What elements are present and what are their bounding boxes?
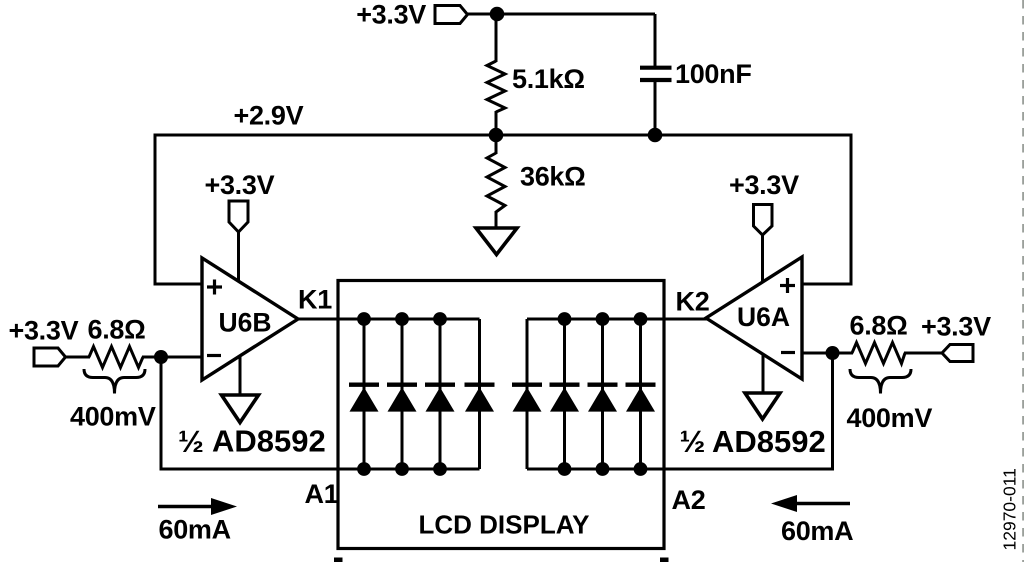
svg-text:A2: A2 (672, 485, 706, 515)
svg-text:K1: K1 (298, 285, 332, 315)
svg-text:K2: K2 (676, 287, 710, 317)
svg-text:6.8Ω: 6.8Ω (88, 315, 146, 345)
svg-text:+3.3V: +3.3V (729, 170, 799, 200)
svg-text:AD8592: AD8592 (712, 424, 826, 459)
svg-text:+3.3V: +3.3V (356, 0, 426, 30)
svg-text:+2.9V: +2.9V (234, 101, 304, 131)
svg-text:+3.3V: +3.3V (205, 170, 275, 200)
svg-text:60mA: 60mA (159, 515, 231, 545)
svg-text:U6B: U6B (219, 308, 272, 338)
svg-text:36kΩ: 36kΩ (520, 162, 586, 192)
svg-text:+3.3V: +3.3V (9, 316, 79, 346)
svg-text:LCD DISPLAY: LCD DISPLAY (419, 510, 590, 540)
svg-text:½: ½ (178, 424, 204, 459)
svg-text:400mV: 400mV (70, 402, 156, 432)
svg-text:100nF: 100nF (675, 59, 752, 89)
svg-text:12970-011: 12970-011 (1000, 468, 1020, 550)
svg-text:6.8Ω: 6.8Ω (850, 311, 908, 341)
svg-text:U6A: U6A (737, 302, 790, 332)
svg-text:½: ½ (680, 424, 706, 459)
svg-text:60mA: 60mA (781, 516, 853, 546)
svg-text:+3.3V: +3.3V (921, 312, 991, 342)
svg-text:A1: A1 (305, 479, 339, 509)
svg-text:400mV: 400mV (847, 403, 933, 433)
svg-text:AD8592: AD8592 (212, 424, 326, 459)
svg-text:5.1kΩ: 5.1kΩ (512, 64, 585, 94)
